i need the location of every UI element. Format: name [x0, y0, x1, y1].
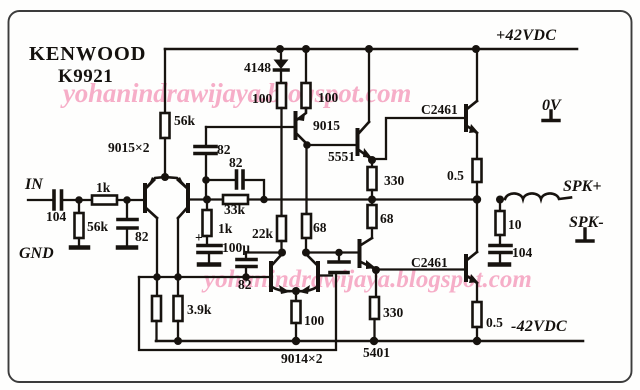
- node 100R rail tap: [302, 45, 310, 53]
- wire 100 down to 22k (crosses): [280, 108, 282, 216]
- arrow Q8 emitter: [469, 124, 478, 133]
- resistor 100 left: [277, 83, 286, 108]
- wire rail to C2461 collector: [476, 49, 478, 101]
- svg-text:K9921: K9921: [58, 66, 113, 87]
- wire 82 shunt drop: [126, 200, 128, 218]
- resistor 68 right: [368, 205, 377, 228]
- node base left: [123, 196, 131, 204]
- node Q5 collector: [302, 249, 310, 257]
- svg-text:82: 82: [135, 229, 149, 244]
- ground bar 56k: [71, 245, 88, 250]
- capacitor 82 lower left: [245, 253, 247, 277]
- svg-text:104: 104: [46, 209, 67, 224]
- wire cap82 to node: [205, 155, 207, 199]
- wire rail to diode: [280, 49, 282, 59]
- resistor 1k nfb: [203, 210, 212, 236]
- wire rail to 100R: [305, 49, 307, 83]
- capacitor 104 zobel: [490, 246, 511, 253]
- wire 68L bottom to node: [305, 238, 307, 253]
- resistor 22k: [277, 216, 286, 241]
- wire 5551 emitter to C2461 base riser: [372, 118, 464, 159]
- wire Q3 collector down to 68L: [305, 145, 307, 214]
- diode 4148: [274, 60, 289, 70]
- wire 1k to base: [117, 199, 145, 201]
- svg-text:9014×2: 9014×2: [281, 351, 323, 366]
- transistor Q8 C2461 upper: collector arm: [467, 101, 477, 109]
- node collector Q2 join: [174, 273, 182, 281]
- svg-text:SPK+: SPK+: [563, 178, 601, 195]
- wire node to 5401 base: [306, 251, 357, 253]
- capacitor 82 input: [118, 220, 137, 229]
- transistor Q4 emitter arm: [272, 287, 294, 291]
- wire 82 to ground: [126, 230, 128, 246]
- svg-text:33k: 33k: [224, 202, 246, 217]
- wire to series 82 cap: [206, 179, 234, 181]
- wire output node down to lower C2461 collector: [476, 200, 478, 253]
- ground bar zobel: [490, 262, 509, 267]
- wire 56k to diff emitters: [164, 138, 166, 176]
- svg-text:68: 68: [380, 211, 394, 226]
- node nfb: [203, 196, 211, 204]
- svg-text:82: 82: [238, 277, 252, 292]
- svg-text:100: 100: [318, 90, 339, 105]
- transistor Q5 base bar: [316, 263, 320, 290]
- wire input: [28, 199, 52, 201]
- wire cap top stem: [338, 253, 340, 262]
- wire +42V top rail: [165, 48, 577, 51]
- transistor Q3 collector arm: [297, 134, 306, 143]
- wire 5401 emitter to 330 lower: [375, 270, 377, 297]
- svg-text:1k: 1k: [218, 221, 233, 236]
- arrow Q1 emitter: [147, 177, 156, 189]
- transistor Q7 base bar: [358, 241, 362, 266]
- arrow Q2 emitter: [176, 177, 186, 189]
- wire 1k to 100u: [206, 236, 208, 244]
- node 82 lower left: [242, 273, 250, 281]
- wire Q9 emitter to 0.5 lower: [476, 283, 478, 302]
- transistor Q7 5401 collector arm: [361, 238, 372, 245]
- svg-text:+42VDC: +42VDC: [496, 27, 556, 44]
- wire 68R to 5401 collector: [371, 228, 373, 238]
- transistor Q6 5551 base bar: [356, 130, 360, 154]
- wire 22k to collector node: [280, 241, 282, 252]
- node 100 on rail: [292, 337, 300, 345]
- wire 9014 emitters to 100: [295, 293, 297, 301]
- arrow Q3 emitter: [298, 113, 305, 121]
- resistor 10: [496, 211, 505, 235]
- node input divider: [75, 196, 83, 204]
- transistor Q6 collector arm: [359, 122, 369, 133]
- wire 5551 collector to rail: [368, 49, 370, 122]
- arrow Q4 emitter: [279, 285, 290, 294]
- resistor 0.5 lower: [473, 302, 482, 327]
- wire Q2 collector drop: [177, 218, 179, 277]
- node 33k right: [260, 196, 268, 204]
- svg-text:9015: 9015: [313, 118, 340, 133]
- wire zobel drop: [499, 200, 501, 212]
- svg-text:22k: 22k: [252, 226, 274, 241]
- resistor 100 bottom: [292, 301, 301, 323]
- resistor 68 left: [302, 214, 311, 238]
- arrow Q6 emitter: [363, 148, 372, 158]
- ground bar 100u: [199, 262, 219, 267]
- transistor Q6 emitter arm: [359, 150, 371, 159]
- transistor Q3 9015 base bar: [294, 113, 298, 138]
- ground 0V: [543, 111, 559, 121]
- svg-text:0.5: 0.5: [486, 315, 503, 330]
- svg-text:4148: 4148: [244, 60, 271, 75]
- transistor Q4 base bar: [269, 263, 273, 290]
- transistor Q4 9014 left: collector arm: [272, 254, 282, 265]
- wire loop left drop: [139, 274, 336, 350]
- wire series cap to mid rail: [245, 180, 264, 199]
- svg-text:1k: 1k: [96, 180, 111, 195]
- svg-text:330: 330: [383, 305, 404, 320]
- svg-text:68: 68: [313, 220, 327, 235]
- capacitor 100u: [198, 246, 221, 253]
- svg-text:5551: 5551: [328, 149, 355, 164]
- transistor Q8 emitter arm: [467, 126, 477, 133]
- svg-text:C2461: C2461: [411, 255, 448, 270]
- wire Q1 collector drop: [156, 218, 158, 277]
- wire 3.9k left bottom: [155, 321, 157, 341]
- resistor 3.9k right: [174, 296, 183, 321]
- capacitor 104 input: [54, 191, 62, 209]
- node 330/68 mid rail: [368, 196, 376, 204]
- wire Q5 base to cap: [320, 274, 332, 276]
- arrow Q7 emitter: [366, 260, 376, 269]
- wire diode to R100: [280, 71, 282, 83]
- capacitor 82 lower right: [329, 262, 349, 273]
- svg-text:0.5: 0.5: [447, 168, 464, 183]
- transistor Q9 base bar: [464, 256, 468, 280]
- wire mid rail 33k to output node: [248, 198, 477, 200]
- svg-text:82: 82: [229, 155, 243, 170]
- resistor 56k (tail): [161, 113, 170, 138]
- arrow Q5 emitter: [299, 285, 310, 294]
- wire Q3 collector to 5551 base: [307, 144, 356, 146]
- wire 3.9k right top: [177, 277, 179, 296]
- wire 104 to node: [63, 199, 92, 201]
- wire 10 to 104: [499, 235, 501, 244]
- transistor Q1 left 9015 emitter arm: [146, 177, 165, 188]
- resistor 0.5 upper: [473, 159, 482, 182]
- node diff emitter junction: [161, 173, 169, 181]
- svg-text:330: 330: [384, 173, 405, 188]
- transistor Q9 emitter arm: [467, 276, 477, 283]
- svg-text:3.9k: 3.9k: [187, 302, 212, 317]
- svg-text:9015×2: 9015×2: [108, 140, 150, 155]
- wire diff right base to 33k: [188, 198, 223, 200]
- ground bar 82: [118, 245, 136, 250]
- node 5551 emitter: [368, 156, 376, 164]
- wire 330 to mid rail: [371, 190, 373, 199]
- node 82/33k branch: [202, 176, 210, 184]
- transistor Q2 base bar: [186, 185, 190, 211]
- svg-text:KENWOOD: KENWOOD: [29, 43, 146, 65]
- node 9014 emitters: [292, 287, 300, 295]
- svg-text:-42VDC: -42VDC: [511, 318, 567, 335]
- svg-text:10: 10: [508, 217, 522, 232]
- transistor Q8 base bar: [464, 106, 468, 130]
- wire 9014 base line left: [139, 276, 270, 278]
- wire mid rail to 68R: [371, 200, 373, 206]
- node 3.9k right on rail: [174, 337, 182, 345]
- wire 0.5 to output node: [476, 182, 478, 199]
- wire 56k shunt drop: [78, 200, 80, 213]
- node cap to 5401 base wire: [335, 249, 343, 257]
- transistor Q5 9014 right: collector arm: [306, 254, 317, 265]
- svg-text:IN: IN: [24, 176, 44, 193]
- transistor Q1 base bar: [143, 185, 147, 211]
- node Q3 collector: [303, 141, 311, 149]
- node 4148 rail tap: [276, 45, 284, 53]
- wire 100 to neg rail: [295, 323, 297, 341]
- wire 330 lower to neg rail: [373, 319, 375, 341]
- svg-text:100: 100: [252, 91, 273, 106]
- svg-text:5401: 5401: [363, 345, 390, 360]
- resistor 330 lower: [370, 297, 379, 319]
- wire 56k to ground: [78, 238, 80, 246]
- svg-text:+: +: [195, 230, 203, 245]
- transistor Q7 emitter arm: [361, 262, 375, 269]
- resistor 56k input: [75, 213, 84, 238]
- wire 3.9k left top: [156, 277, 158, 296]
- wire 5551 emitter to 330: [371, 160, 373, 167]
- wire 100R to Q3 emitter: [298, 108, 306, 119]
- wire cap top to Q4 collector node: [246, 251, 282, 253]
- svg-text:56k: 56k: [174, 113, 196, 128]
- inductor output coil: [505, 193, 571, 199]
- resistor 1k input: [92, 196, 117, 205]
- resistor 330 upper: [368, 167, 377, 190]
- node 5551 rail tap: [365, 45, 373, 53]
- wire nfb down to 1k: [206, 200, 208, 211]
- resistor 33k: [223, 195, 248, 204]
- node output: [473, 195, 481, 203]
- wire neg rail: [156, 340, 583, 343]
- node Q4 collector: [278, 249, 286, 257]
- transistor Q1 collector arm: [146, 208, 157, 218]
- ground SPK-: [577, 229, 593, 241]
- node collector Q1 join: [153, 273, 161, 281]
- wire Q3 base from comp cap: [206, 126, 293, 128]
- transistor Q2 collector arm: [178, 208, 187, 218]
- wire 0.5 lower to neg rail: [476, 327, 478, 341]
- wire 104 to ground: [499, 254, 501, 263]
- svg-text:C2461: C2461: [421, 102, 458, 117]
- arrow Q9 emitter: [469, 274, 478, 283]
- transistor Q9 C2461 lower: collector arm: [467, 252, 477, 260]
- transistor Q2 right 9015 emitter arm: [165, 177, 187, 188]
- svg-text:56k: 56k: [87, 219, 109, 234]
- wire Q8 emitter to 0.5: [476, 133, 478, 159]
- node 5401 emitter: [372, 266, 380, 274]
- wire output to zobel node: [496, 196, 504, 204]
- svg-text:GND: GND: [19, 245, 54, 262]
- resistor 100 right: [302, 83, 311, 108]
- wire left drop from rail to R 56k: [164, 49, 166, 113]
- node 0.5 on neg rail: [473, 337, 481, 345]
- resistor 3.9k left: [152, 296, 161, 321]
- capacitor 82 series: [237, 171, 244, 188]
- svg-text:104: 104: [512, 245, 533, 260]
- wire 3.9k right bottom: [177, 321, 179, 341]
- node 330 on neg rail: [370, 337, 378, 345]
- svg-text:100: 100: [304, 313, 325, 328]
- capacitor 82 comp upper: [205, 127, 207, 145]
- wire 5401 emitter to lower C2461 base: [376, 268, 464, 270]
- node output transistor rail tap: [472, 45, 480, 53]
- transistor Q5 emitter arm: [298, 287, 317, 291]
- wire 100u to ground: [208, 254, 210, 263]
